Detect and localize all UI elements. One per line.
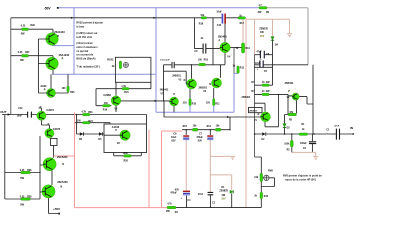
svg-text:C2073: C2073 bbox=[53, 128, 61, 131]
wire C7 column bbox=[209, 130, 211, 135]
ground G3 bbox=[313, 157, 318, 160]
diode D2 bbox=[262, 132, 266, 136]
wire base chain output PNP side bbox=[38, 39, 46, 93]
svg-text:47uF: 47uF bbox=[255, 62, 261, 65]
transistor A940 bbox=[47, 89, 56, 98]
svg-text:47uF: 47uF bbox=[334, 124, 339, 127]
resistor R2 bbox=[290, 140, 293, 147]
resistor R17 bbox=[238, 17, 246, 19]
svg-text:ce qui fait: ce qui fait bbox=[76, 49, 88, 53]
resistor RV8 element bbox=[260, 173, 263, 181]
svg-text:R17: R17 bbox=[240, 23, 245, 25]
wire diff pair emitter stubs to R10 R11 bbox=[174, 88, 214, 112]
svg-text:100k: 100k bbox=[284, 143, 290, 145]
svg-text:ZENER: ZENER bbox=[259, 28, 268, 31]
svg-text:R18: R18 bbox=[199, 24, 204, 26]
svg-text:le bias: le bias bbox=[76, 24, 85, 28]
resistor R26 bbox=[21, 171, 31, 174]
wire C2073a top link bbox=[38, 108, 41, 111]
svg-text:5W: 5W bbox=[21, 33, 25, 36]
svg-text:47uF: 47uF bbox=[256, 51, 262, 54]
svg-text:R11: R11 bbox=[215, 103, 220, 105]
svg-text:R24: R24 bbox=[88, 120, 93, 123]
svg-text:5W: 5W bbox=[20, 59, 24, 62]
svg-text:C2383: C2383 bbox=[103, 94, 111, 97]
svg-text:2SA1943: 2SA1943 bbox=[59, 54, 70, 57]
svg-text:C12: C12 bbox=[18, 108, 23, 110]
capacitor C8 bbox=[183, 135, 189, 137]
svg-text:47uF: 47uF bbox=[198, 193, 204, 196]
svg-text:0.25: 0.25 bbox=[20, 170, 25, 172]
node -50V terminal bbox=[57, 7, 59, 9]
wire V3 collector signal to V7 base bbox=[121, 101, 170, 117]
svg-text:220: 220 bbox=[183, 102, 188, 104]
svg-text:C10: C10 bbox=[217, 25, 222, 27]
wire pink box x160.5 bbox=[162, 131, 183, 208]
wire R29 row bbox=[11, 29, 53, 33]
resistor R11 bbox=[213, 99, 215, 106]
svg-text:2W: 2W bbox=[258, 11, 262, 14]
annotation RV22 box text bbox=[76, 21, 103, 69]
capacitor C11 bbox=[172, 62, 174, 68]
wire zener D4 column bbox=[272, 19, 274, 36]
ground G2 bbox=[230, 156, 235, 159]
wire vertical x234 bbox=[233, 48, 235, 74]
svg-text:2N5401: 2N5401 bbox=[242, 96, 251, 99]
resistor RV22 element bbox=[119, 61, 121, 69]
resistor R20 bbox=[124, 155, 132, 158]
svg-text:100: 100 bbox=[104, 103, 109, 105]
svg-text:100k: 100k bbox=[123, 153, 129, 155]
svg-text:BIAS de (56mA): BIAS de (56mA) bbox=[76, 56, 95, 60]
wire R20 hangs under box bbox=[114, 153, 142, 156]
wire tan long vertical x246 bbox=[245, 20, 247, 208]
wire tan branch to D1 bbox=[210, 175, 231, 190]
resistor R27 bbox=[22, 55, 29, 58]
svg-text:R16: R16 bbox=[204, 59, 209, 61]
wire A940 collector stub bbox=[50, 74, 52, 88]
svg-text:15V: 15V bbox=[260, 36, 265, 38]
capacitor C4 bbox=[183, 191, 190, 193]
wire vertical x313 bbox=[312, 65, 314, 134]
svg-text:un courant de: un courant de bbox=[76, 53, 93, 57]
wire V4 to R13 bbox=[230, 47, 241, 49]
resistor R4 bbox=[262, 93, 269, 95]
wire tan upper vertical x254.5 bbox=[254, 20, 256, 55]
capacitor C7 bbox=[207, 135, 213, 137]
svg-text:R20: R20 bbox=[124, 161, 129, 163]
trimmer RV22 bbox=[123, 62, 128, 67]
wire left frame vertical (emitter resistor bus) bbox=[10, 18, 12, 115]
resistor R10 bbox=[189, 99, 191, 106]
resistor R5 bbox=[288, 113, 297, 115]
svg-text:-50V: -50V bbox=[44, 6, 52, 10]
wire driver bus vertical bbox=[39, 136, 41, 199]
svg-text:2N5551: 2N5551 bbox=[249, 111, 257, 113]
wire diode row D6 D5 bbox=[77, 115, 104, 135]
svg-text:RV22 permet d'ajuster: RV22 permet d'ajuster bbox=[76, 21, 103, 25]
svg-text:10uF: 10uF bbox=[171, 137, 177, 139]
svg-text:entre 2 émetteurs: entre 2 émetteurs bbox=[76, 45, 98, 49]
svg-text:63V: 63V bbox=[171, 141, 176, 143]
svg-text:R12: R12 bbox=[240, 67, 245, 69]
transistor 2SC5200 a bbox=[43, 158, 56, 171]
svg-text:470uF: 470uF bbox=[170, 192, 177, 195]
wire R13 top tan bbox=[242, 20, 244, 43]
transistor V1 2N5551 bbox=[261, 112, 271, 122]
resistor R15 bbox=[192, 128, 198, 131]
wire IN line y134 bbox=[255, 133, 353, 135]
svg-text:RV8: RV8 bbox=[268, 169, 273, 172]
wire A940 emitter to R25 bbox=[56, 74, 69, 93]
diode D6 bbox=[80, 132, 84, 136]
resistor R42 bbox=[260, 192, 263, 198]
wire pink collector feed 2SC5200 bbox=[54, 155, 75, 157]
resistor R9 bbox=[259, 7, 267, 9]
transistor V4 2N5401 bbox=[220, 42, 230, 52]
svg-text:1W: 1W bbox=[221, 194, 225, 197]
svg-text:50V: 50V bbox=[198, 141, 203, 143]
resistor R14 bbox=[215, 128, 221, 131]
svg-text:470uF: 470uF bbox=[196, 136, 203, 139]
svg-text:R19: R19 bbox=[103, 109, 108, 111]
wire OUT line y114.5 bbox=[2, 115, 147, 125]
wire D3 column bbox=[285, 115, 289, 135]
trimmer RV8 bbox=[264, 175, 269, 180]
svg-text:R14: R14 bbox=[207, 125, 212, 128]
wire pink vertical x149 bbox=[148, 130, 150, 208]
svg-text:R10: R10 bbox=[192, 103, 197, 105]
svg-text:0.25: 0.25 bbox=[18, 52, 23, 54]
transistor C2073 a bbox=[37, 111, 46, 120]
svg-text:R26: R26 bbox=[27, 170, 32, 172]
svg-text:R25: R25 bbox=[70, 92, 75, 94]
transistor Q1 2SA1943 bbox=[46, 33, 59, 46]
transistor V7 2N5401 bbox=[170, 97, 179, 106]
wire pink +50V bottom rail bbox=[75, 207, 168, 209]
resistor R18 bbox=[201, 17, 207, 19]
svg-text:2N5401: 2N5401 bbox=[285, 82, 294, 85]
svg-text:R15: R15 bbox=[183, 126, 188, 128]
svg-text:R27: R27 bbox=[25, 52, 30, 54]
svg-text:repos de la sortie HP (0V): repos de la sortie HP (0V) bbox=[285, 178, 316, 182]
resistor R16 bbox=[199, 63, 206, 66]
capacitor C6 bbox=[260, 51, 264, 59]
transistor Q2 2SA1943 bbox=[46, 57, 59, 70]
capacitor C5 bbox=[260, 60, 263, 67]
zener D4 bbox=[271, 37, 274, 41]
transistor V5 2N5551 bbox=[186, 79, 196, 89]
wire C9 row V4 base bbox=[195, 18, 220, 49]
wire OUT feedback left vertical bbox=[4, 115, 6, 200]
resistor R23 bbox=[83, 113, 91, 115]
wire blue collector Q2 row y74 bbox=[52, 73, 156, 75]
wire C11 left branch to V5 base bbox=[164, 65, 187, 101]
svg-text:2N5551: 2N5551 bbox=[172, 74, 181, 77]
transistor 2SC5200 b bbox=[42, 185, 55, 198]
ground G1 bbox=[287, 34, 292, 37]
wire R4 row to V2 base bbox=[255, 94, 293, 114]
svg-text:la R 150 ohm: la R 150 ohm bbox=[76, 35, 92, 39]
svg-text:2SC5200: 2SC5200 bbox=[57, 156, 68, 159]
wire R24 row to A1013 base bbox=[75, 123, 121, 136]
wire V2 collector bbox=[299, 97, 313, 104]
resistor R3 bbox=[167, 206, 176, 209]
wire R28 row bbox=[5, 198, 40, 200]
wire -50V drop at x156 bbox=[155, 8, 157, 113]
transistor V2 2N5401 bbox=[292, 93, 299, 100]
resistor R12 bbox=[237, 66, 239, 73]
junction arrow at x73 rail bbox=[71, 17, 73, 19]
wire D1 bottom bbox=[231, 193, 233, 207]
wire Q2 collector stub bbox=[52, 70, 54, 74]
wire V1 collector bbox=[255, 103, 266, 111]
svg-text:R29: R29 bbox=[30, 25, 35, 27]
svg-text:2W: 2W bbox=[266, 90, 270, 93]
resistor R19 bbox=[103, 105, 110, 107]
resistor R13 bbox=[242, 43, 245, 53]
box around A1013 V8 bbox=[104, 124, 147, 153]
svg-text:63V: 63V bbox=[175, 189, 180, 191]
svg-text:2N5401: 2N5401 bbox=[160, 88, 169, 91]
junction arrow at x155 rail bbox=[153, 17, 155, 19]
svg-text:5W: 5W bbox=[20, 177, 24, 180]
resistor R21 bbox=[122, 88, 129, 90]
wire V6 collector stub bbox=[220, 65, 222, 78]
svg-text:2W: 2W bbox=[266, 81, 270, 84]
wire RV8 network bbox=[255, 157, 275, 208]
wire pink +50V vertical left bbox=[74, 112, 76, 207]
wire V4 emitter down bbox=[224, 53, 226, 65]
wire -50V drop at x74 bbox=[73, 8, 75, 74]
wire R7 row bbox=[255, 67, 273, 85]
capacitor C1 bbox=[336, 129, 339, 140]
junction arrow on signal line bbox=[155, 100, 157, 102]
box label 2N5551 V1 bbox=[249, 107, 263, 112]
capacitor C2 bbox=[309, 142, 316, 144]
diode D5 bbox=[99, 132, 103, 136]
svg-text:10uF: 10uF bbox=[17, 115, 23, 117]
resistor R24 bbox=[83, 122, 91, 124]
svg-text:R23: R23 bbox=[88, 112, 93, 114]
transistor C2073 b bbox=[45, 129, 54, 138]
svg-text:OUT: OUT bbox=[0, 110, 7, 114]
wire tan ground rail top right bbox=[246, 19, 290, 33]
svg-text:4.7k: 4.7k bbox=[167, 203, 172, 206]
wire C6 row bbox=[255, 54, 273, 56]
wire -50V blue rail top bbox=[58, 7, 259, 9]
svg-text:1W: 1W bbox=[260, 31, 264, 34]
svg-text:24k: 24k bbox=[254, 176, 259, 179]
wire black bottom rail right part bbox=[176, 207, 261, 209]
wire C11 to R16 row bbox=[174, 64, 225, 66]
svg-text:RV22: RV22 bbox=[107, 59, 114, 62]
resistor R28 bbox=[21, 198, 31, 201]
wire V1 base row y117 bbox=[164, 117, 261, 130]
node OUT arrow bbox=[8, 113, 11, 116]
svg-text:2W: 2W bbox=[166, 210, 170, 213]
svg-text:100: 100 bbox=[77, 121, 82, 123]
svg-text:0.25: 0.25 bbox=[21, 25, 26, 27]
svg-text:2N5551: 2N5551 bbox=[198, 86, 207, 89]
wire R9 gray feed bbox=[267, 8, 308, 65]
wire blue R12 bottom stub bbox=[234, 73, 238, 112]
svg-text:0.25: 0.25 bbox=[20, 197, 25, 199]
wire R10 R11 bottoms to blue tail bbox=[190, 106, 214, 113]
wire blue collector Q1 to -50V bbox=[52, 45, 74, 47]
svg-text:5W: 5W bbox=[20, 203, 24, 206]
wire C2073a to C2073b bbox=[41, 120, 49, 129]
svg-text:+50V: +50V bbox=[53, 207, 60, 211]
box around trimmer RV22 bbox=[115, 57, 150, 82]
wire gray vertical x254.5 bbox=[254, 55, 256, 157]
wire 2SC5200 collector column to +50V bbox=[49, 171, 59, 214]
capacitor C9 bbox=[203, 44, 206, 54]
svg-text:R42: R42 bbox=[264, 195, 269, 198]
wire tan ground net bottom right bbox=[292, 152, 316, 156]
svg-text:C2073: C2073 bbox=[46, 109, 54, 112]
svg-text:R28: R28 bbox=[27, 197, 32, 199]
wire R15 R14 row bbox=[182, 129, 230, 131]
wire C2073b emitter jog box bbox=[51, 138, 58, 145]
zener D3 bbox=[283, 124, 286, 128]
resistor R1 bbox=[299, 133, 308, 135]
svg-text:R13: R13 bbox=[245, 48, 250, 50]
wire blue diff pair tail row y112 bbox=[156, 111, 234, 113]
transistor V3 C2383 bbox=[111, 96, 121, 106]
capacitor C3 bbox=[208, 192, 214, 194]
svg-text:(1.29V) relevé sur: (1.29V) relevé sur bbox=[76, 31, 97, 35]
wire C2 column bbox=[311, 134, 313, 152]
wire C2383 bias network R21 row bbox=[96, 82, 151, 105]
svg-text:100uF: 100uF bbox=[300, 143, 307, 145]
resistor R29 bbox=[22, 28, 29, 31]
resistor R7 bbox=[262, 84, 269, 86]
wire 2SC5200 base stubs bbox=[40, 165, 43, 192]
svg-text:ZENER: ZENER bbox=[219, 189, 228, 192]
transistor V8 A1013 bbox=[120, 130, 130, 140]
svg-text:A1013: A1013 bbox=[112, 126, 120, 129]
zener D1 bbox=[230, 190, 233, 193]
transistor V6 2N5551 bbox=[212, 78, 222, 88]
node +50V terminal bbox=[58, 213, 60, 215]
svg-text:100: 100 bbox=[198, 59, 203, 61]
svg-text:1.5k: 1.5k bbox=[121, 86, 126, 88]
svg-text:RV8 permet d'ajuster le point: RV8 permet d'ajuster le point de bbox=[283, 173, 322, 177]
wire R19 row into V3 bbox=[96, 106, 116, 113]
wire black top rail -50V distribution bbox=[11, 17, 238, 19]
wire R2 column bbox=[291, 134, 293, 152]
wire R26 row bbox=[5, 172, 40, 174]
capacitor C12 bbox=[28, 112, 32, 118]
svg-text:R21: R21 bbox=[124, 92, 129, 94]
annotation RV8 text bbox=[283, 173, 322, 181]
wire V1 emitter bbox=[265, 94, 279, 126]
wire R27 row bbox=[11, 56, 53, 58]
svg-text:10uF: 10uF bbox=[216, 12, 222, 14]
svg-text:15V: 15V bbox=[221, 199, 226, 201]
svg-text:(14mv) relevé: (14mv) relevé bbox=[76, 41, 93, 45]
svg-text:T°du radiateur (32°): T°du radiateur (32°) bbox=[76, 65, 100, 69]
svg-text:2SA1943: 2SA1943 bbox=[54, 31, 65, 34]
wire C5 row bbox=[255, 64, 309, 66]
svg-text:4.7k: 4.7k bbox=[81, 110, 86, 113]
wire V4 collector to rail bbox=[224, 18, 226, 43]
wire C11 row bbox=[164, 64, 172, 66]
wire C8 column bbox=[185, 130, 187, 135]
wire V5 collector stub bbox=[191, 65, 193, 79]
wire vertical x213 bbox=[212, 18, 214, 65]
resistor R25 bbox=[67, 86, 69, 92]
svg-text:2N5401: 2N5401 bbox=[218, 36, 227, 39]
capacitor C10 bbox=[222, 14, 224, 24]
wire V2 emitter to R5 bbox=[296, 100, 298, 113]
svg-text:2SC5200: 2SC5200 bbox=[57, 181, 68, 184]
svg-text:C11 2.2uF: C11 2.2uF bbox=[160, 59, 170, 61]
wire tan branch to ground G2 bbox=[210, 155, 230, 157]
node IN terminal bbox=[352, 133, 354, 135]
junction arrow on V1 base line bbox=[227, 116, 229, 118]
svg-text:IN: IN bbox=[350, 126, 353, 130]
